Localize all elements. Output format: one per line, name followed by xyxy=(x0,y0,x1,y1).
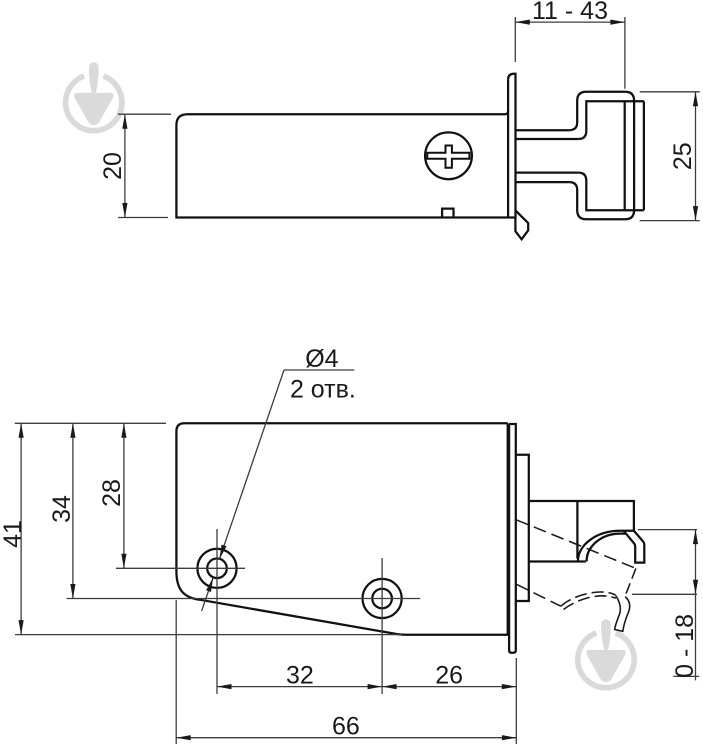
bottom view body outline xyxy=(176,423,507,635)
bottom view hole 1 outer xyxy=(197,549,236,588)
bottom view hole 2 outer xyxy=(363,579,402,618)
svg-text:26: 26 xyxy=(435,662,463,690)
bottom view hole 2 inner xyxy=(372,589,392,609)
svg-text:2 отв.: 2 отв. xyxy=(290,375,356,403)
watermark logo bottom-right xyxy=(578,619,634,687)
dimension 25 xyxy=(640,92,700,221)
svg-text:32: 32 xyxy=(286,662,314,690)
top view flange plate xyxy=(508,74,515,218)
top view screw head circle xyxy=(425,132,472,179)
hole 1 centerline vertical xyxy=(216,529,218,694)
svg-text:11 - 43: 11 - 43 xyxy=(532,0,608,25)
dimension 66 xyxy=(176,600,516,744)
top view screw phillips cross xyxy=(427,146,469,168)
dimension 41 xyxy=(15,423,402,634)
svg-text:34: 34 xyxy=(48,495,76,523)
rotated claw solid xyxy=(615,596,630,632)
bottom view hook block xyxy=(529,501,634,562)
svg-text:28: 28 xyxy=(98,479,126,507)
dimension 0 - 18 xyxy=(632,530,699,681)
top view stem bar lower xyxy=(516,173,579,183)
svg-text:Ø4: Ø4 xyxy=(305,345,338,373)
top view hook head inner outline xyxy=(578,101,644,210)
top view head inner right edge xyxy=(624,101,626,210)
svg-text:66: 66 xyxy=(332,712,360,740)
dimension 32 and 26 xyxy=(217,686,516,688)
top view hook head outer outline xyxy=(569,92,634,220)
top view flange pointed tab xyxy=(515,210,528,239)
hole 2 centerline vertical xyxy=(381,558,383,694)
bottom view hook arc outer xyxy=(578,531,624,562)
bottom view bushing xyxy=(516,455,529,601)
bottom view flange plate xyxy=(509,424,516,653)
top view notch xyxy=(442,209,453,218)
dashed rotated hook outline xyxy=(516,520,636,632)
bottom view hole 1 inner xyxy=(207,559,227,579)
svg-text:0 - 18: 0 - 18 xyxy=(671,614,699,678)
watermark logo top-left xyxy=(66,62,122,130)
top view stem bar upper xyxy=(516,130,579,139)
bottom view hook claw xyxy=(624,531,645,563)
svg-text:20: 20 xyxy=(99,152,127,180)
top view cap right edge xyxy=(643,101,645,210)
top view body outline xyxy=(176,80,515,218)
dimension 34 xyxy=(67,423,421,598)
dimension 11 - 43 xyxy=(515,17,625,89)
dimension 20 xyxy=(118,114,171,217)
bottom view hook arc inner xyxy=(587,534,626,562)
svg-text:41: 41 xyxy=(0,520,27,548)
svg-text:25: 25 xyxy=(669,142,697,170)
leader Ø4 2 otv xyxy=(202,370,355,611)
dimension 28 xyxy=(116,423,245,568)
